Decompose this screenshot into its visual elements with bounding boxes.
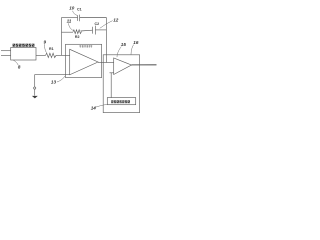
wire top feedback branch left of C1 — [62, 17, 78, 19]
svg-text:C2: C2 — [95, 22, 100, 26]
wire input top — [1, 50, 11, 52]
wire feedback left vertical — [61, 18, 63, 56]
capacitor C2 — [93, 26, 96, 35]
op-amp triangle preamp — [70, 49, 98, 75]
svg-text:R1: R1 — [49, 47, 54, 51]
svg-text:R2: R2 — [75, 35, 80, 39]
capacitor C1 — [78, 15, 80, 22]
svg-text:15: 15 — [121, 42, 127, 47]
wire box8 to R1 — [36, 54, 46, 56]
wire ground vertical — [34, 74, 36, 95]
comparator box 16 — [103, 55, 139, 113]
leader line for 14 — [94, 104, 107, 107]
text: reference voltage source label (tiny CJK simulated) — [111, 100, 130, 103]
wire lower branch left of R2 — [62, 31, 74, 33]
svg-text:16: 16 — [133, 40, 139, 45]
resistor R2 — [73, 30, 82, 34]
wire preamp output to comparator — [98, 62, 114, 64]
wire input bottom — [1, 54, 11, 56]
wire ground horizontal — [35, 74, 70, 76]
preamp box U1 — [66, 44, 102, 77]
leader line for 8 — [13, 60, 18, 65]
svg-text:9: 9 — [44, 40, 47, 45]
wire reference vertical — [110, 73, 112, 98]
svg-text:8: 8 — [18, 65, 21, 70]
wire output — [132, 64, 157, 66]
leader line for 9 — [45, 44, 47, 52]
leader line for 15 — [117, 47, 121, 58]
leader line for 10 — [73, 11, 77, 16]
resistor R1 — [46, 53, 56, 57]
wire R1 to amp input — [56, 54, 70, 56]
svg-text:14: 14 — [91, 106, 97, 111]
leader line for 12 — [100, 21, 113, 29]
leader line for 16 — [131, 45, 134, 55]
comparator triangle 15 — [114, 58, 132, 75]
leader line for 11 — [68, 23, 73, 30]
detector element box 8 — [11, 48, 36, 61]
ground — [32, 96, 38, 99]
svg-text:10: 10 — [69, 6, 75, 11]
text: detector element label (tiny CJK simulated) — [13, 44, 35, 47]
wire comparator minus input stub — [110, 72, 114, 74]
leader line for 13 — [57, 76, 65, 82]
wire top feedback branch right of C1 — [80, 17, 107, 19]
reference voltage box 14 — [107, 98, 135, 105]
svg-text:11: 11 — [67, 19, 72, 24]
terminal circle node 13 — [34, 87, 36, 89]
svg-text:13: 13 — [51, 80, 57, 85]
wire feedback right vertical / comparator box left edge — [105, 18, 107, 63]
svg-text:C1: C1 — [77, 7, 82, 11]
wire R2 to C2 — [81, 29, 93, 32]
wire C2 to right vertical — [96, 29, 107, 31]
svg-text:12: 12 — [113, 17, 119, 22]
text: preamp label (tiny CJK simulated, gray) — [79, 45, 92, 47]
